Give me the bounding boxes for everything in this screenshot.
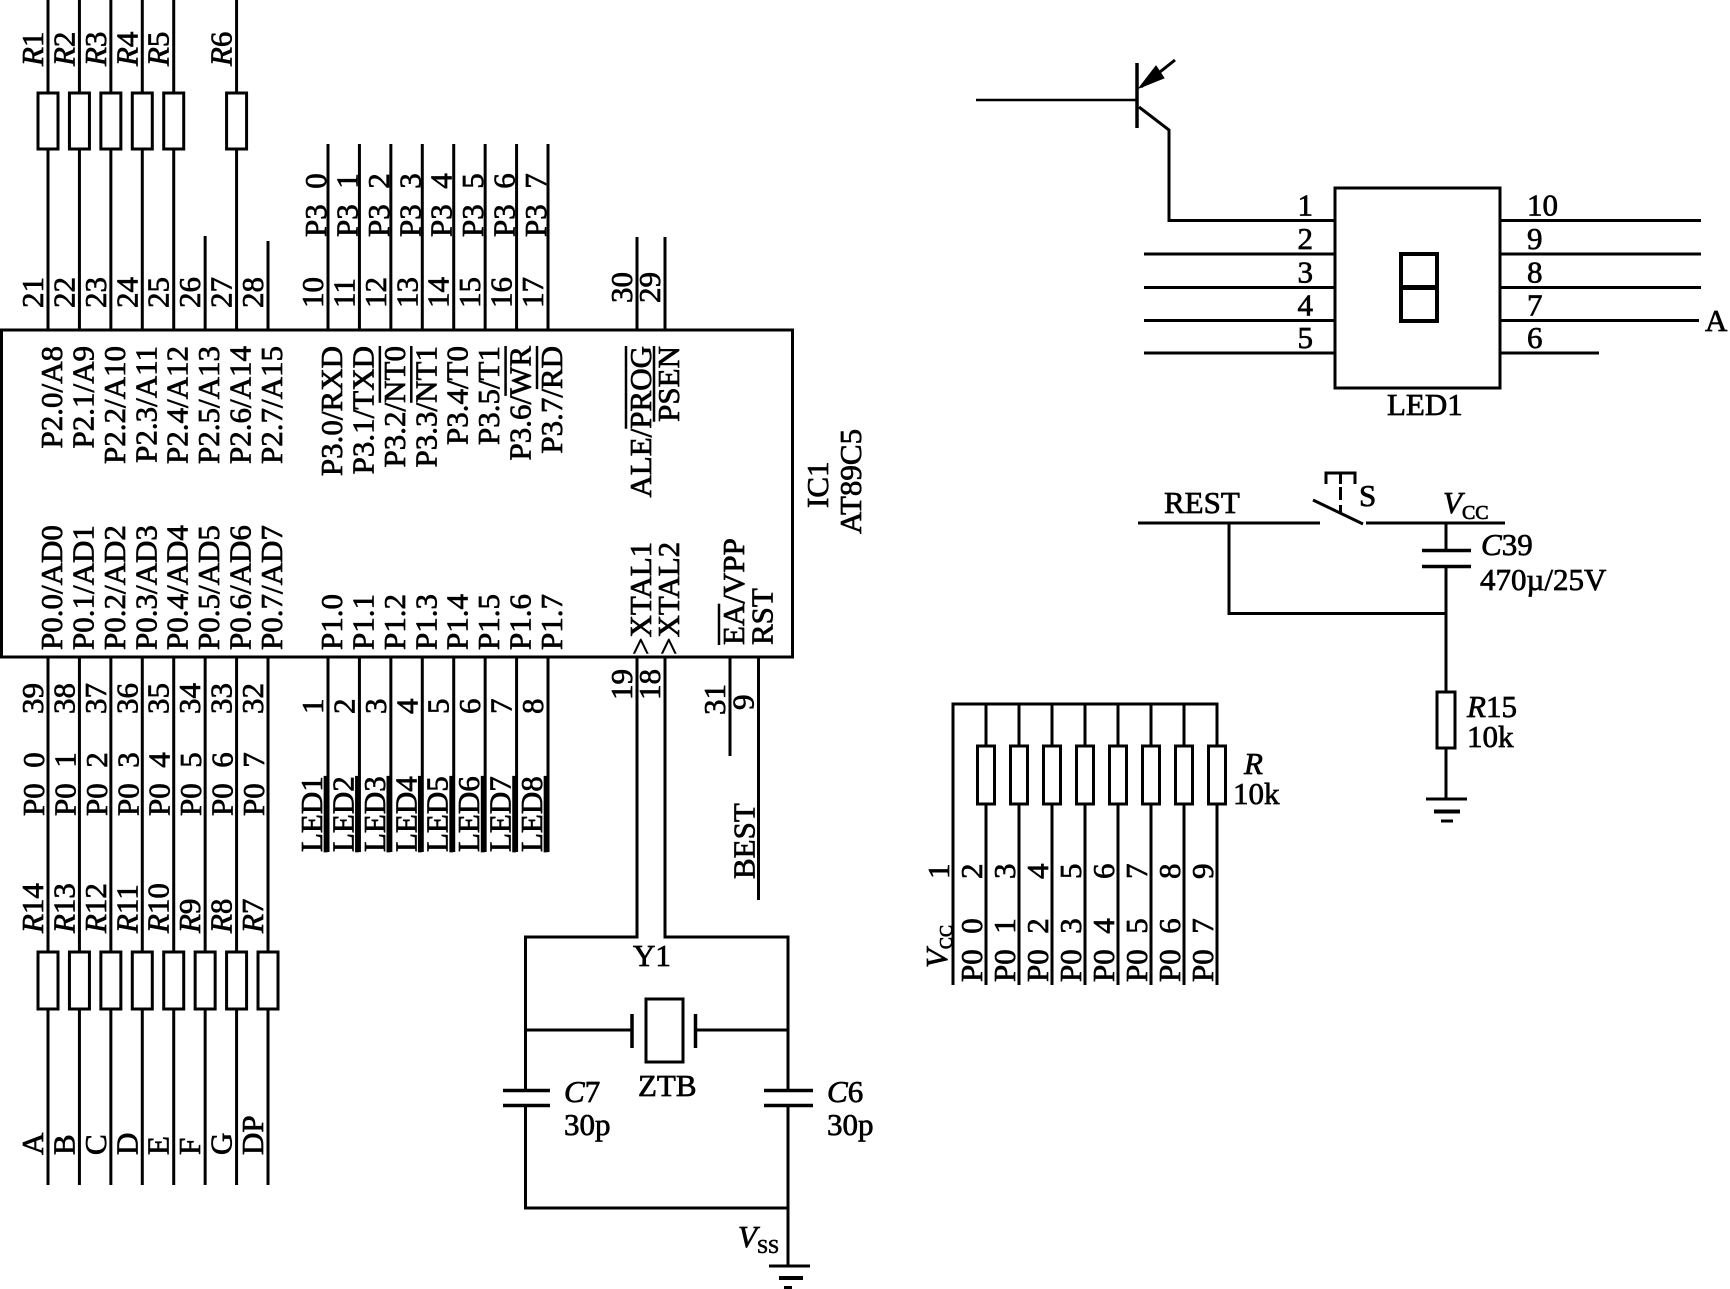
svg-text:8: 8: [515, 699, 550, 715]
resistor R element 1: [978, 746, 995, 804]
wire pin 23: [109, 0, 112, 330]
svg-text:R13: R13: [46, 883, 81, 934]
svg-text:P3.5/T1: P3.5/T1: [471, 346, 506, 445]
svg-text:A: A: [15, 1132, 50, 1155]
svg-text:P2.3/A11: P2.3/A11: [128, 346, 163, 463]
svg-text:P0.3/AD3: P0.3/AD3: [128, 525, 163, 650]
svg-text:P1.7: P1.7: [534, 594, 569, 650]
svg-text:P3 5: P3 5: [455, 173, 490, 237]
svg-text:5: 5: [1298, 320, 1314, 355]
svg-text:Y1: Y1: [633, 938, 671, 973]
svg-text:39: 39: [15, 683, 50, 714]
wire pin 4 / net LED4: [421, 657, 424, 852]
transistor Q1 collector: [1139, 107, 1169, 130]
svg-text:3: 3: [987, 864, 1022, 880]
wire pin 34 / node P0 5: [204, 657, 207, 1185]
resistor R1: [38, 93, 58, 149]
svg-text:P1.4: P1.4: [440, 594, 475, 650]
svg-text:P0.1/AD1: P0.1/AD1: [65, 525, 100, 650]
svg-text:C7: C7: [564, 1074, 600, 1109]
svg-text:LED4: LED4: [388, 776, 423, 852]
svg-text:1: 1: [1298, 188, 1314, 223]
svg-text:P3 4: P3 4: [424, 173, 459, 237]
wire pin 3 / net LED3: [389, 657, 392, 852]
svg-text:F: F: [172, 1138, 207, 1155]
svg-text:R3: R3: [78, 32, 113, 67]
svg-text:P0 0: P0 0: [954, 918, 989, 982]
svg-text:BEST: BEST: [727, 803, 762, 879]
wire switch to VCC: [1366, 522, 1505, 525]
svg-text:6: 6: [1527, 320, 1543, 355]
svg-text:26: 26: [172, 277, 207, 308]
resistor R3: [101, 93, 121, 149]
wire pin 27: [235, 0, 238, 330]
svg-text:B: B: [46, 1134, 81, 1155]
wire pin 31: [729, 657, 732, 756]
svg-text:P0 1: P0 1: [987, 918, 1022, 982]
svg-text:4: 4: [389, 698, 424, 714]
svg-text:R11: R11: [109, 884, 144, 934]
svg-text:32: 32: [235, 683, 270, 714]
svg-text:2: 2: [326, 699, 361, 715]
wire pin 10 / node P3 0: [327, 144, 330, 330]
svg-text:P1.5: P1.5: [471, 594, 506, 650]
wire pin 33 / node P0 6: [235, 657, 238, 1185]
svg-text:P0 4: P0 4: [142, 752, 177, 816]
svg-text:LED1: LED1: [294, 776, 329, 852]
svg-text:P1.3: P1.3: [408, 594, 443, 650]
svg-text:R8: R8: [204, 899, 239, 934]
transistor Q1 base bar: [1135, 63, 1139, 128]
wire pin 8 / net LED8: [547, 657, 550, 852]
svg-text:P0 2: P0 2: [1020, 918, 1055, 982]
wire array pin 5: [1084, 704, 1087, 985]
svg-text:25: 25: [141, 277, 176, 308]
wire collector to LED1 pin1: [1169, 219, 1335, 222]
svg-text:16: 16: [484, 277, 519, 308]
wire crystal loop left lower: [524, 1107, 527, 1208]
wire LED1 pin 7: [1500, 319, 1699, 322]
LED1 7-segment glyph: [1401, 254, 1437, 321]
wire pin 29: [664, 237, 667, 330]
svg-text:P1.0: P1.0: [314, 594, 349, 650]
wire pin 19 XTAL1: [636, 657, 639, 939]
svg-text:11: 11: [326, 278, 361, 308]
svg-text:G: G: [204, 1133, 239, 1155]
crystal Y1 body: [646, 999, 683, 1062]
svg-text:P2.4/A12: P2.4/A12: [160, 346, 195, 464]
wire pin 25: [172, 0, 175, 330]
svg-text:36: 36: [109, 683, 144, 714]
resistor R4: [132, 93, 152, 149]
svg-text:P0.4/AD4: P0.4/AD4: [160, 525, 195, 650]
svg-text:P0.6/AD6: P0.6/AD6: [223, 525, 258, 650]
svg-text:9: 9: [1527, 221, 1543, 256]
svg-text:IC1: IC1: [800, 462, 835, 509]
switch S actuator link: [1339, 487, 1342, 514]
svg-text:P2.7/A15: P2.7/A15: [254, 346, 289, 464]
svg-text:P0.0/AD0: P0.0/AD0: [34, 525, 69, 650]
wire crystal loop right lower: [787, 1107, 790, 1208]
svg-text:P1.2: P1.2: [377, 594, 412, 650]
resistor R10: [164, 952, 184, 1009]
svg-text:R2: R2: [46, 32, 81, 67]
wire pin 9 / net BEST: [757, 657, 760, 900]
svg-text:8: 8: [1527, 255, 1543, 290]
svg-text:38: 38: [46, 683, 81, 714]
svg-text:10k: 10k: [1233, 776, 1280, 811]
wire pin 36 / node P0 3: [141, 657, 144, 1185]
svg-text:18: 18: [632, 669, 667, 700]
resistor R6: [227, 93, 247, 149]
resistor R element 5: [1110, 746, 1127, 804]
svg-text:C6: C6: [827, 1074, 863, 1109]
switch S actuator: [1326, 472, 1355, 475]
wire pin 24: [141, 0, 144, 330]
crystal Y1 right plate: [694, 1014, 698, 1048]
wire LED1 pin 8: [1500, 286, 1701, 289]
wire pin 38 / node P0 1: [78, 657, 81, 1185]
svg-text:R1: R1: [15, 32, 50, 67]
svg-text:AT89C5: AT89C5: [833, 429, 868, 534]
resistor R13: [69, 952, 89, 1009]
svg-text:33: 33: [204, 683, 239, 714]
svg-text:P0.5/AD5: P0.5/AD5: [191, 525, 226, 650]
svg-text:10k: 10k: [1467, 719, 1514, 754]
svg-text:12: 12: [358, 277, 393, 308]
svg-text:R5: R5: [141, 32, 176, 67]
wire pin 39 / node P0 0: [47, 657, 50, 1185]
wire LED1 pin 10: [1500, 219, 1701, 222]
wire pin 1 / net LED1: [327, 657, 330, 852]
svg-text:P1.1: P1.1: [345, 594, 380, 650]
svg-text:LED5: LED5: [420, 776, 455, 852]
svg-text:LED6: LED6: [451, 776, 486, 852]
svg-text:28: 28: [235, 277, 270, 308]
resistor R element 8: [1209, 746, 1226, 804]
svg-text:P0 6: P0 6: [205, 752, 240, 816]
svg-text:P3 0: P3 0: [298, 173, 333, 237]
wire crystal loop top-right: [664, 936, 789, 939]
svg-text:P3.3/NT1: P3.3/NT1: [408, 346, 443, 467]
resistor R2: [69, 93, 89, 149]
resistor R8: [227, 952, 247, 1009]
wire node to REST branch: [1228, 612, 1448, 615]
resistor R element 7: [1176, 746, 1193, 804]
svg-text:R6: R6: [204, 32, 239, 67]
svg-text:23: 23: [78, 277, 113, 308]
transistor Q1 emitter: [1141, 60, 1175, 87]
resistor R14: [38, 952, 58, 1009]
wire pin 16 / node P3 6: [515, 144, 518, 330]
wire LED1 pin 3: [1144, 286, 1335, 289]
svg-text:P3.4/T0: P3.4/T0: [440, 346, 475, 445]
wire R15 to ground: [1445, 748, 1448, 799]
svg-text:470µ/25V: 470µ/25V: [1480, 562, 1607, 597]
wire crystal loop left upper: [524, 936, 527, 1090]
wire array pin 4: [1051, 704, 1054, 985]
capacitor C39: [1422, 549, 1471, 553]
capacitor C6 plates: [764, 1089, 813, 1093]
wire VCC to C39: [1445, 523, 1448, 550]
svg-text:30p: 30p: [827, 1107, 874, 1142]
svg-text:P0 3: P0 3: [1053, 918, 1088, 982]
wire pin 21: [47, 0, 50, 330]
wire REST branch down: [1228, 523, 1231, 614]
resistor R12: [101, 952, 121, 1009]
wire pin 37 / node P0 2: [109, 657, 112, 1185]
svg-text:R7: R7: [235, 899, 270, 934]
wire node to R15: [1445, 614, 1448, 693]
svg-text:P3 6: P3 6: [487, 173, 522, 237]
svg-text:7: 7: [1527, 288, 1543, 323]
svg-text:1: 1: [921, 864, 956, 880]
wire pin 18 XTAL2: [664, 657, 667, 939]
svg-text:R9: R9: [172, 899, 207, 934]
svg-text:10: 10: [1527, 188, 1558, 223]
svg-text:3: 3: [358, 699, 393, 715]
svg-text:P0 0: P0 0: [16, 752, 51, 816]
svg-text:LED7: LED7: [483, 776, 518, 852]
wire pin 14 / node P3 4: [452, 144, 455, 330]
svg-text:1: 1: [295, 699, 330, 715]
svg-text:R14: R14: [15, 883, 50, 934]
wire pin 12 / node P3 2: [389, 144, 392, 330]
svg-text:13: 13: [389, 277, 424, 308]
resistor R15: [1437, 692, 1455, 748]
wire crystal mid right: [696, 1029, 789, 1032]
wire pin 2 / net LED2: [358, 657, 361, 852]
svg-text:P3.1/TXD: P3.1/TXD: [345, 346, 380, 474]
svg-text:17: 17: [515, 277, 550, 308]
svg-text:24: 24: [109, 277, 144, 309]
ground VSS: [769, 1265, 810, 1268]
svg-text:P0 2: P0 2: [79, 752, 114, 816]
crystal Y1 left plate: [630, 1014, 634, 1048]
resistor R11: [132, 952, 152, 1009]
wire array pin 7: [1150, 704, 1153, 985]
wire array pin 8: [1183, 704, 1186, 985]
svg-text:29: 29: [632, 272, 667, 303]
wire crystal mid left: [526, 1029, 633, 1032]
svg-text:P0 4: P0 4: [1086, 918, 1121, 982]
svg-text:LED8: LED8: [514, 776, 549, 852]
svg-text:P3.2/NT0: P3.2/NT0: [377, 346, 412, 467]
svg-text:E: E: [141, 1136, 176, 1155]
svg-text:C: C: [78, 1134, 113, 1155]
capacitor C7 plates: [503, 1089, 550, 1093]
svg-text:P0 3: P0 3: [110, 752, 145, 816]
svg-text:P0.7/AD7: P0.7/AD7: [254, 525, 289, 650]
resistor R element 4: [1077, 746, 1094, 804]
svg-text:9: 9: [726, 695, 761, 711]
svg-text:P0 5: P0 5: [173, 752, 208, 816]
resistor R7: [258, 952, 278, 1009]
wire pin 22: [78, 0, 81, 330]
wire crystal loop bottom: [524, 1207, 790, 1210]
wire pin 28: [267, 241, 270, 330]
svg-text:27: 27: [204, 277, 239, 308]
svg-text:37: 37: [78, 683, 113, 714]
svg-text:5: 5: [1053, 864, 1088, 880]
wire array pin 2: [985, 704, 988, 985]
wire pin 30: [636, 237, 639, 330]
svg-text:P2.5/A13: P2.5/A13: [191, 346, 226, 464]
wire pin 32 / node P0 7: [267, 657, 270, 1185]
wire pin 15 / node P3 5: [484, 144, 487, 330]
svg-text:P0 1: P0 1: [47, 752, 82, 816]
svg-text:2: 2: [1298, 221, 1314, 256]
svg-text:14: 14: [421, 277, 456, 309]
svg-text:3: 3: [1298, 255, 1314, 290]
wire crystal loop top-left: [526, 936, 639, 939]
ground R15: [1426, 798, 1467, 801]
resistor R5: [164, 93, 184, 149]
resistor R element 3: [1044, 746, 1061, 804]
svg-text:REST: REST: [1164, 485, 1240, 520]
resistor R9: [195, 952, 215, 1009]
svg-text:15: 15: [452, 277, 487, 308]
wire array pin 6: [1117, 704, 1120, 985]
wire pin 6 / net LED6: [484, 657, 487, 852]
svg-text:P0 7: P0 7: [236, 752, 271, 816]
svg-text:P0.2/AD2: P0.2/AD2: [97, 525, 132, 650]
svg-text:P0 7: P0 7: [1185, 918, 1220, 982]
svg-text:S: S: [1359, 478, 1376, 513]
svg-text:P1.6: P1.6: [503, 594, 538, 650]
svg-text:P3 1: P3 1: [329, 173, 364, 237]
wire pin 17 / node P3 7: [547, 144, 550, 330]
svg-text:C39: C39: [1481, 527, 1533, 562]
svg-text:P3 7: P3 7: [518, 173, 553, 237]
svg-text:4: 4: [1298, 288, 1314, 323]
svg-text:LED1: LED1: [1387, 387, 1463, 422]
svg-text:34: 34: [172, 683, 207, 715]
wire pin 7 / net LED7: [515, 657, 518, 852]
svg-text:DP: DP: [235, 1115, 270, 1155]
svg-text:>XTAL2: >XTAL2: [651, 542, 686, 655]
svg-text:7: 7: [1119, 864, 1154, 880]
wire transistor base: [976, 99, 1137, 102]
svg-text:LED2: LED2: [325, 776, 360, 852]
wire array pin 1 VCC: [952, 704, 955, 985]
svg-text:P3 2: P3 2: [361, 173, 396, 237]
svg-text:30p: 30p: [564, 1107, 611, 1142]
svg-text:R12: R12: [78, 883, 113, 934]
LED1 body: [1335, 188, 1500, 388]
svg-text:10: 10: [295, 277, 330, 308]
svg-text:21: 21: [15, 277, 50, 308]
wire VSS to ground: [787, 1208, 790, 1266]
svg-text:P2.2/A10: P2.2/A10: [97, 346, 132, 464]
svg-text:5: 5: [421, 699, 456, 715]
svg-text:9: 9: [1185, 864, 1220, 880]
svg-text:P3 3: P3 3: [392, 173, 427, 237]
wire array pin 3: [1018, 704, 1021, 985]
svg-text:8: 8: [1152, 864, 1187, 880]
wire crystal loop right upper: [787, 936, 790, 1090]
wire C39 to node: [1445, 567, 1448, 615]
svg-text:ZTB: ZTB: [638, 1068, 697, 1103]
wire LED1 pin 9: [1500, 253, 1701, 256]
svg-text:6: 6: [1086, 864, 1121, 880]
wire pin 26: [204, 236, 207, 330]
svg-text:2: 2: [954, 864, 989, 880]
switch S blade: [1313, 500, 1363, 524]
wire LED1 pin 2: [1144, 253, 1335, 256]
svg-text:P2.0/A8: P2.0/A8: [34, 346, 69, 449]
resistor R element 2: [1011, 746, 1028, 804]
wire LED1 pin 5: [1144, 352, 1335, 355]
wire resistor-array bus: [952, 703, 1219, 706]
svg-text:7: 7: [484, 699, 519, 715]
svg-text:4: 4: [1020, 863, 1055, 879]
svg-text:P3.7/RD: P3.7/RD: [534, 346, 569, 454]
svg-text:P0 6: P0 6: [1152, 918, 1187, 982]
svg-text:A: A: [1705, 303, 1728, 338]
wire LED1 pin 4: [1144, 319, 1335, 322]
svg-text:P2.6/A14: P2.6/A14: [223, 346, 258, 464]
svg-text:R4: R4: [109, 31, 144, 67]
wire pin 35 / node P0 4: [172, 657, 175, 1185]
wire LED1 pin 6: [1500, 352, 1599, 355]
wire REST: [1138, 522, 1320, 525]
svg-text:P2.1/A9: P2.1/A9: [65, 346, 100, 449]
resistor R element 6: [1143, 746, 1160, 804]
IC IC1 AT89C5 body: [2, 330, 793, 657]
svg-text:P3.0/RXD: P3.0/RXD: [314, 346, 349, 476]
svg-text:22: 22: [46, 277, 81, 308]
svg-text:35: 35: [141, 683, 176, 714]
wire pin 13 / node P3 3: [421, 144, 424, 330]
wire pin 11 / node P3 1: [358, 144, 361, 330]
svg-text:P3.6/WR: P3.6/WR: [503, 346, 538, 461]
svg-text:PSEN: PSEN: [651, 346, 686, 422]
svg-text:RST: RST: [745, 588, 780, 645]
svg-text:LED3: LED3: [357, 776, 392, 852]
wire pin 5 / net LED5: [452, 657, 455, 852]
wire array pin 9: [1216, 704, 1219, 985]
svg-text:P0 5: P0 5: [1119, 918, 1154, 982]
svg-text:R10: R10: [141, 883, 176, 934]
svg-text:6: 6: [452, 699, 487, 715]
svg-text:D: D: [109, 1133, 144, 1155]
